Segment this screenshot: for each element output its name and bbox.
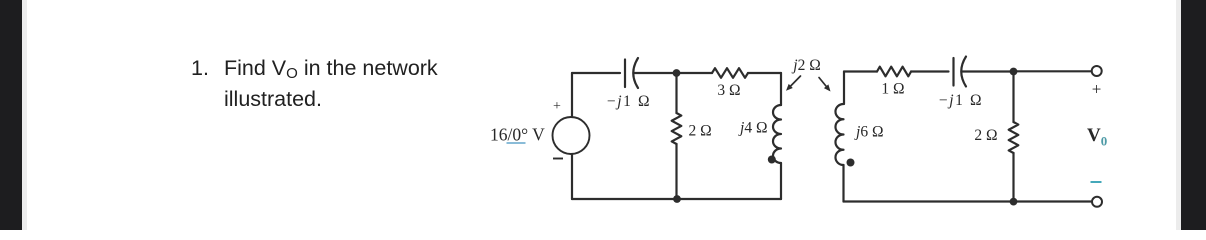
polarity dot of j6 coil bbox=[847, 159, 855, 167]
svg-text:16/0° V: 16/0° V bbox=[490, 125, 545, 145]
wire: right loop top rail to resistor 1ohm bbox=[844, 70, 877, 72]
output terminal top (open circle) bbox=[1092, 66, 1102, 76]
svg-text:+: + bbox=[553, 99, 561, 114]
svg-text:j2 Ω: j2 Ω bbox=[791, 57, 820, 74]
svg-text:−j1 Ω: −j1 Ω bbox=[939, 92, 983, 109]
wire: bottom rail of right loop bbox=[844, 200, 1092, 202]
right dark scanner bar bbox=[1176, 0, 1181, 230]
wire: node A down to resistor 2ohm (left) bbox=[675, 73, 677, 113]
wire: resistor 3ohm to top-right corner bbox=[748, 72, 781, 74]
resistor 2 ohm left (vertical zigzag) bbox=[672, 113, 682, 144]
wire: right loop top-left corner down to inductor j6 bbox=[843, 72, 845, 105]
svg-text:2 Ω: 2 Ω bbox=[974, 127, 997, 144]
svg-text:1 Ω: 1 Ω bbox=[881, 81, 904, 98]
svg-text:j6 Ω: j6 Ω bbox=[854, 124, 883, 141]
output terminal bottom (open circle) bbox=[1092, 197, 1102, 207]
wire: capacitor C1 to node A bbox=[635, 72, 677, 74]
svg-text:−j1 Ω: −j1 Ω bbox=[607, 93, 651, 110]
problem statement text bbox=[190, 53, 192, 55]
inductor j4 ohm (coil, 4 loops) bbox=[773, 105, 781, 163]
svg-text:3 Ω: 3 Ω bbox=[717, 82, 740, 99]
capacitor -j1 ohm (right), straight plate bbox=[952, 58, 954, 86]
mutual coupling arrow to j4 coil bbox=[789, 76, 800, 88]
wire: bottom rail up to source minus terminal bbox=[571, 154, 573, 199]
wire: corner down to inductor j4 bbox=[780, 73, 782, 105]
wire: resistor 2ohm (left) to bottom rail bbox=[675, 144, 677, 199]
resistor 1 ohm (horizontal zigzag) bbox=[877, 67, 911, 77]
polarity dot of j4 coil bbox=[768, 156, 776, 164]
left dark scanner bar bbox=[0, 0, 22, 230]
source minus sign bbox=[553, 158, 563, 160]
wire: inductor j4 to bottom rail bbox=[780, 163, 782, 199]
wire: resistor 1ohm to capacitor C2 bbox=[911, 70, 949, 72]
svg-text:+: + bbox=[1092, 80, 1102, 99]
wire: capacitor C2 to node B bbox=[963, 70, 1014, 72]
wire: resistor 2ohm (right) to bottom rail bbox=[1012, 153, 1014, 202]
capacitor -j1 ohm (right), curved plate bbox=[961, 57, 966, 87]
node (bottom right) junction dot bbox=[1010, 198, 1018, 206]
svg-text:2 Ω: 2 Ω bbox=[689, 123, 712, 140]
inductor j6 ohm (coil, 4 loops) bbox=[835, 104, 843, 165]
svg-text:j4 Ω: j4 Ω bbox=[738, 120, 767, 137]
resistor 3 ohm (horizontal zigzag) bbox=[712, 68, 748, 78]
svg-text:V0: V0 bbox=[1087, 125, 1107, 149]
wire: node B to top output terminal bbox=[1013, 70, 1092, 72]
voltage source 16/0 V (circle) bbox=[553, 117, 590, 154]
wire: source plus terminal up to top rail bbox=[571, 73, 573, 117]
capacitor -j1 ohm (left), straight plate bbox=[624, 60, 626, 88]
wire: inductor j6 to bottom rail bbox=[842, 165, 844, 202]
wire: bottom rail of left loop bbox=[572, 198, 781, 200]
resistor 2 ohm right (vertical zigzag) bbox=[1009, 122, 1019, 153]
node A junction dot bbox=[673, 69, 681, 77]
wire: node B down to resistor 2ohm (right) bbox=[1012, 72, 1014, 123]
wire: node A to resistor 3ohm bbox=[676, 72, 712, 74]
wire: top rail source to capacitor C1 bbox=[572, 72, 620, 74]
arrowhead of coupling arrow to j6 bbox=[824, 84, 831, 91]
mutual coupling arrow to j6 coil bbox=[819, 78, 828, 89]
node B junction dot bbox=[1010, 68, 1018, 76]
capacitor -j1 ohm (left), curved plate bbox=[633, 58, 638, 88]
teal underline of angle 0 bbox=[507, 142, 526, 144]
arrowhead of coupling arrow to j4 bbox=[786, 84, 793, 91]
node (bottom left) junction dot bbox=[673, 195, 681, 203]
output minus sign (teal) bbox=[1091, 181, 1102, 183]
